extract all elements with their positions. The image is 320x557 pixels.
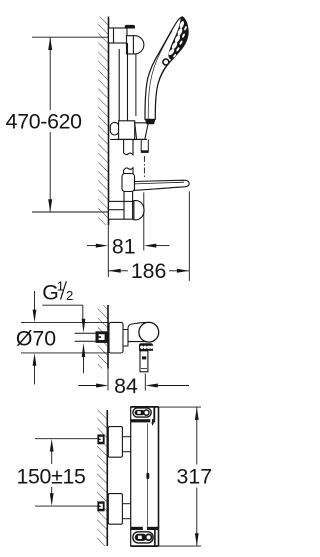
svg-text:81: 81	[112, 235, 136, 259]
rail segment through bottom mount	[124, 192, 133, 220]
hand shower head and handle	[145, 17, 188, 120]
dimension 317 (vertical at right)	[159, 407, 202, 546]
wall (bottom drawing) hatched band	[97, 410, 107, 546]
bottom mount end cap	[134, 201, 144, 220]
spray face of hand shower	[169, 17, 188, 60]
body centre line with marker	[146, 424, 149, 527]
escutcheon (O70 rosette)	[109, 322, 123, 353]
dark handle tip in holder	[145, 119, 156, 124]
valve body	[128, 323, 146, 342]
svg-text:Ø70: Ø70	[16, 326, 56, 350]
supply pipe in wall	[75, 333, 96, 341]
knob base plate (bottom, edge-on dark bar)	[131, 527, 159, 530]
dimension 186 (horizontal)	[108, 191, 189, 281]
dimension 470-620 (left, vertical)	[32, 37, 108, 212]
rail lower segment with break symbol	[124, 139, 133, 178]
wall (middle drawing) hatched band	[98, 305, 108, 369]
hose below handle	[141, 139, 149, 153]
G 1/2 leader line with arrows	[42, 305, 85, 373]
knob base plate (top, edge-on dark bar)	[131, 419, 156, 425]
soap dish glide on rail	[122, 174, 135, 192]
shower holder on rail	[110, 121, 148, 140]
svg-text:150±15: 150±15	[16, 465, 85, 489]
hose guide line beside rail	[135, 54, 137, 116]
svg-text:470-620: 470-620	[6, 109, 83, 133]
svg-text:317: 317	[177, 465, 213, 489]
thermostat body	[131, 407, 159, 546]
soap dish tray	[135, 180, 190, 190]
dimension 150+-15 (vertical at left)	[35, 439, 98, 506]
lower S-union: escutcheon	[108, 494, 122, 525]
upper S-union: escutcheon	[108, 427, 122, 458]
hose connector below outlet	[140, 351, 148, 372]
top rail mount bracket	[109, 25, 144, 54]
svg-text:84: 84	[114, 374, 138, 398]
G 1/2 union nut (dark square)	[96, 331, 108, 343]
dimension text G 1/2	[42, 279, 73, 305]
wall bar (rail) upper segment	[119, 43, 127, 121]
upper S-union: connector to body	[122, 437, 130, 452]
ribbed outlet nut	[139, 343, 153, 351]
dimension 84 (horizontal below valve)	[79, 369, 190, 391]
svg-text:186: 186	[131, 259, 167, 283]
lower S-union: connector to body	[122, 504, 130, 519]
soap dish underside shading line	[140, 187, 183, 190]
soap dish rim inner line	[135, 182, 184, 184]
connector between escutcheon and valve body	[123, 330, 128, 347]
upper S-union: nut in wall	[97, 434, 104, 444]
control knob (circle)	[139, 322, 159, 342]
top control knob (plan view)	[133, 408, 151, 417]
svg-text:2: 2	[66, 288, 73, 303]
small nozzle circle at bottom of spray face	[163, 59, 169, 65]
dimension 81 (horizontal)	[87, 193, 170, 278]
wall (top drawing) hatched band	[98, 17, 108, 226]
bottom rail mount bracket	[109, 201, 134, 219]
dimension O70 (vertical at left)	[21, 291, 109, 384]
bottom control knob (plan view)	[133, 532, 153, 543]
hose centre line (dash-dot)	[143, 156, 145, 177]
lower S-union: nut in wall	[97, 501, 104, 511]
